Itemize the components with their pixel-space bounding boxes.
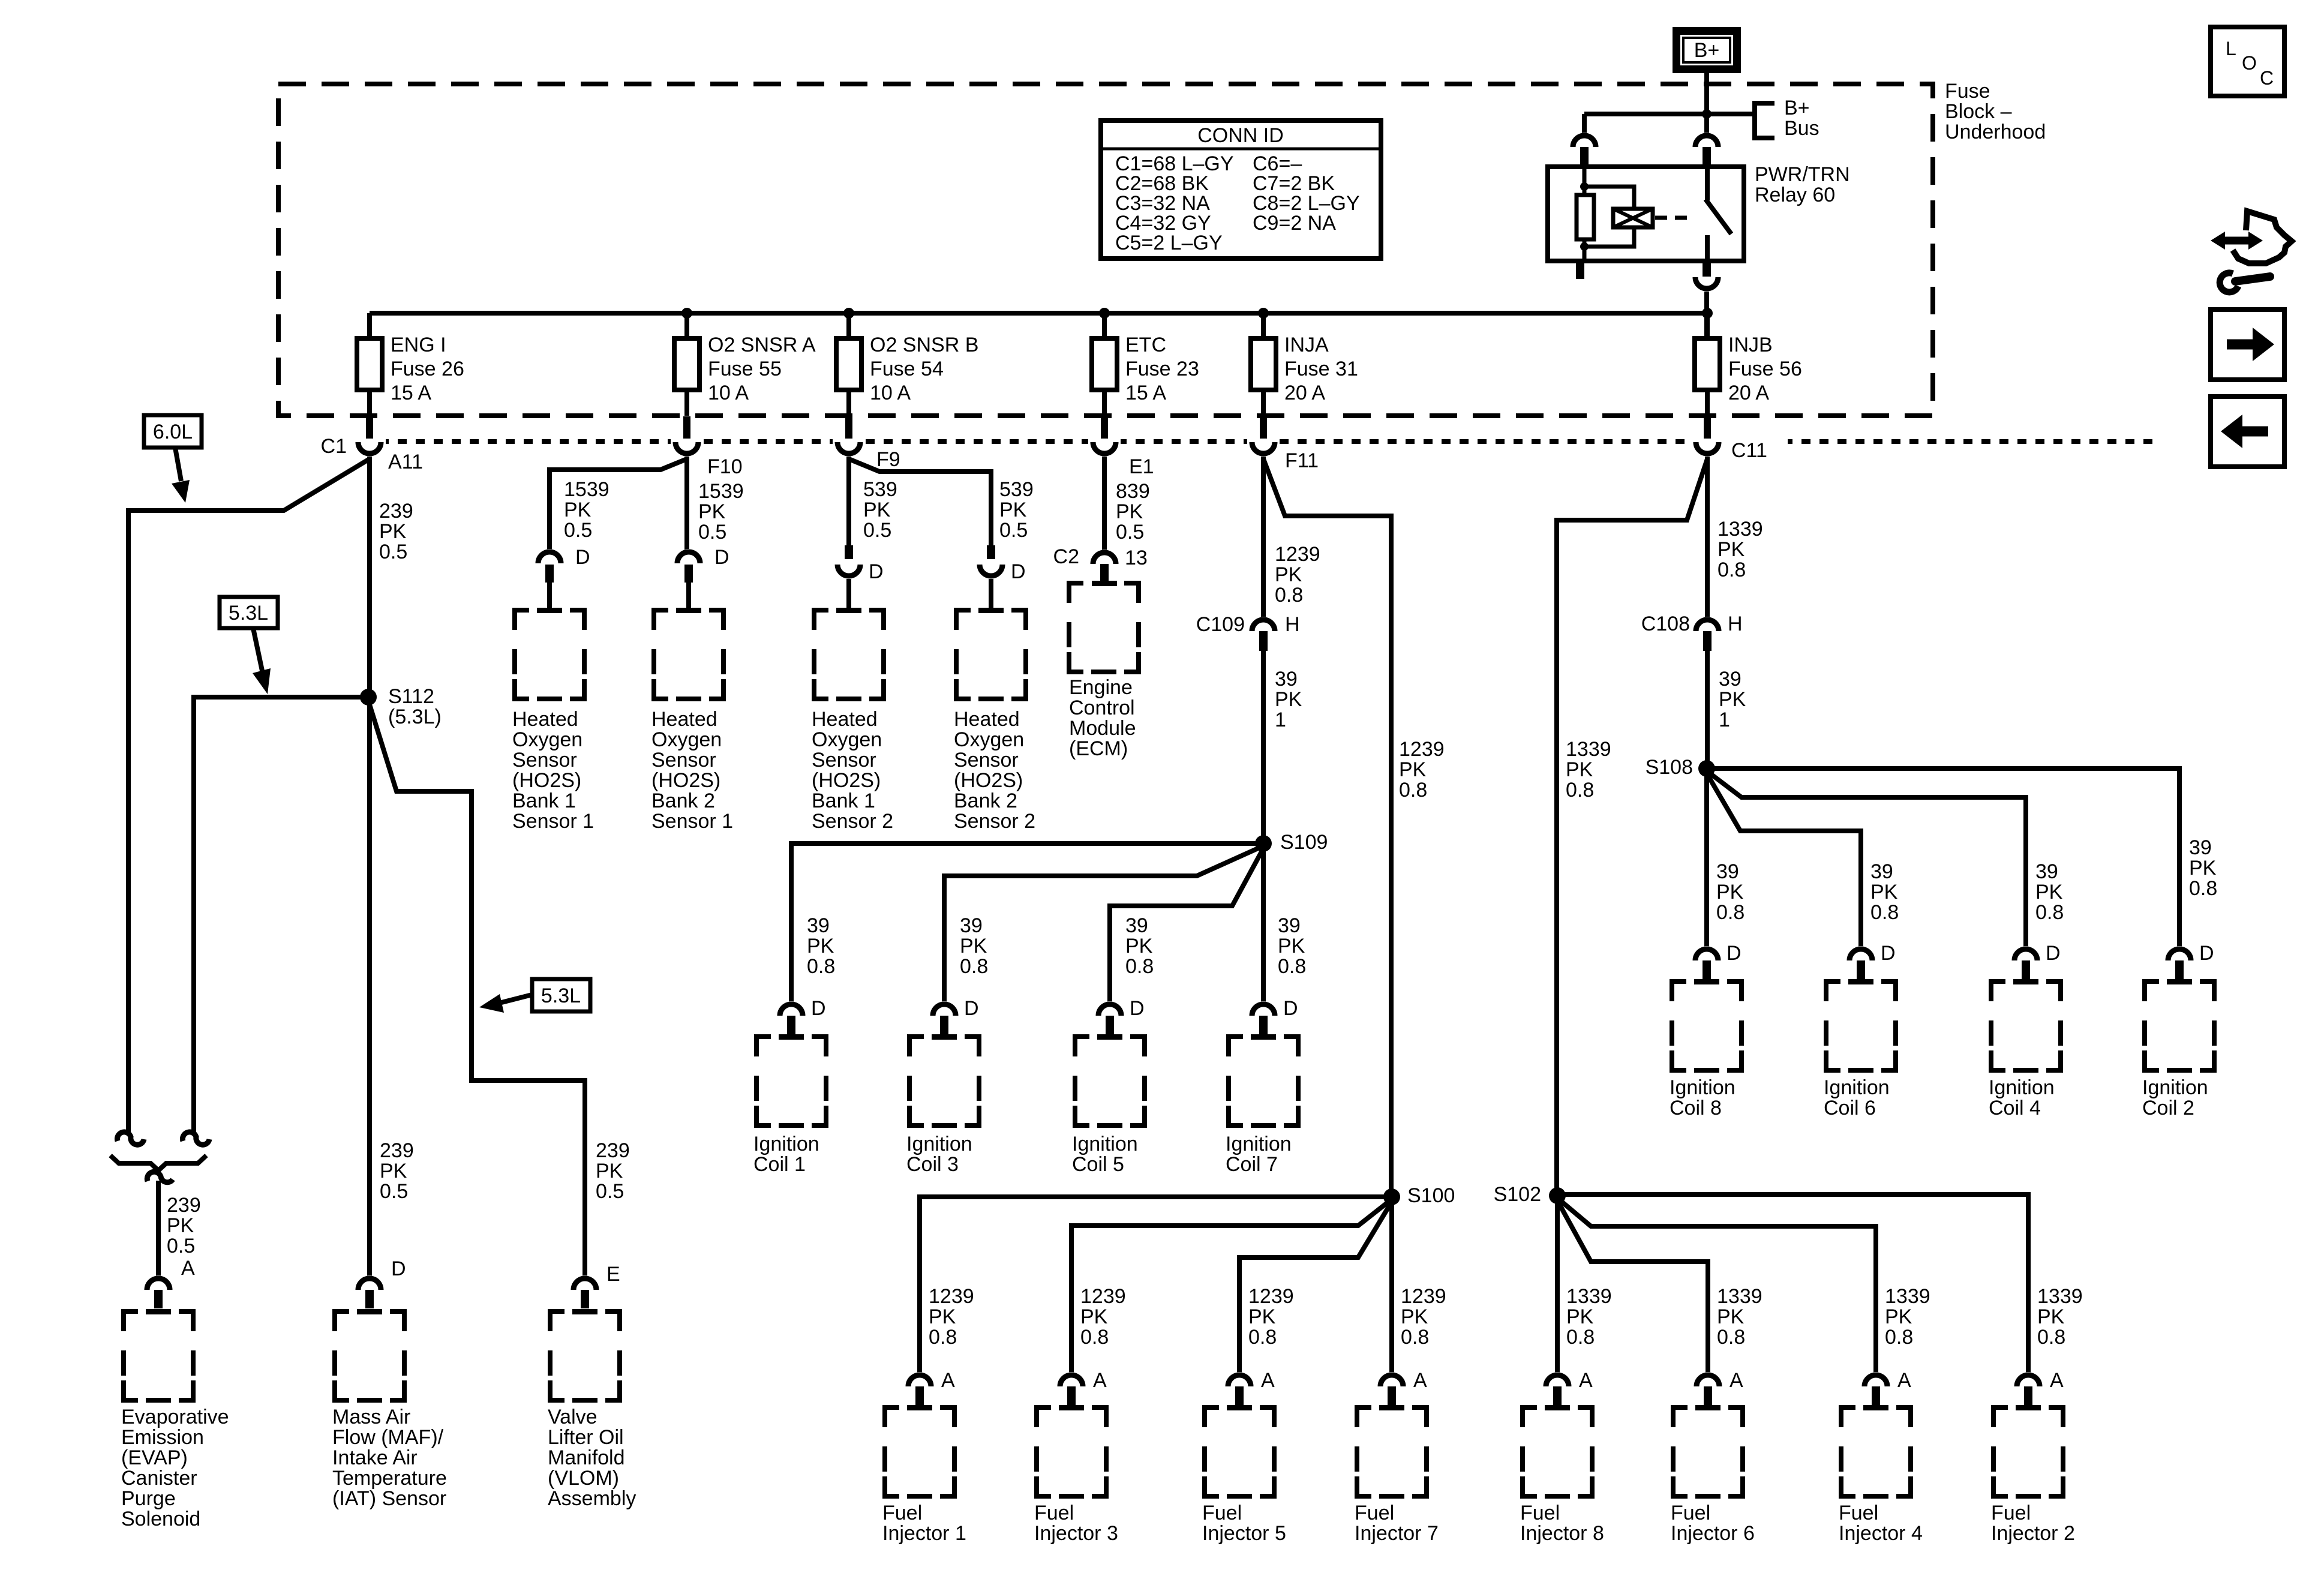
relay coil wire upper <box>1583 167 1587 195</box>
wire S109 to ignition coil 7 <box>1261 843 1266 1003</box>
connector ignition coil 6 pin D <box>1846 946 1875 960</box>
svg-text:Ignition: Ignition <box>1226 1133 1292 1155</box>
svg-text:1539: 1539 <box>564 478 609 501</box>
svg-text:Ignition: Ignition <box>2142 1076 2208 1099</box>
svg-text:239: 239 <box>167 1194 201 1217</box>
svg-text:Coil 3: Coil 3 <box>906 1153 959 1176</box>
wire bus to fuse 23 ETC <box>1102 313 1107 338</box>
svg-text:A: A <box>1897 1369 1911 1392</box>
5.3L arrow upper <box>253 628 262 671</box>
connector ignition coil 5 pin D <box>1095 1001 1124 1016</box>
HO2S bank1 sensor2 box <box>814 610 828 630</box>
svg-text:Bank 1: Bank 1 <box>512 789 576 812</box>
wire fuse supply bus <box>370 311 1707 316</box>
wire S102 to fuel injector 6 <box>1557 1200 1708 1374</box>
twisted pair hooks <box>117 1132 144 1145</box>
fuel injector 8 box <box>1523 1407 1537 1427</box>
svg-text:PK: PK <box>1718 538 1745 561</box>
svg-text:0.8: 0.8 <box>1885 1326 1913 1349</box>
svg-text:PK: PK <box>1566 758 1593 781</box>
svg-text:PK: PK <box>1566 1305 1594 1328</box>
svg-text:PK: PK <box>1116 500 1143 523</box>
wire relay output to INJB fuse <box>1704 292 1709 338</box>
svg-text:39: 39 <box>1278 914 1301 937</box>
svg-text:PK: PK <box>596 1160 623 1182</box>
svg-text:0.8: 0.8 <box>1248 1326 1277 1349</box>
wire B+ to bus junction <box>1704 73 1709 114</box>
connector E1 <box>1088 436 1121 447</box>
svg-text:H: H <box>1285 613 1300 636</box>
svg-text:Heated: Heated <box>651 708 717 731</box>
svg-text:D: D <box>1727 942 1742 965</box>
fuse 31 INJA <box>1251 338 1276 390</box>
svg-text:Oxygen: Oxygen <box>954 728 1024 751</box>
svg-text:839: 839 <box>1116 480 1150 503</box>
svg-text:PK: PK <box>1401 1305 1428 1328</box>
svg-text:D: D <box>391 1257 406 1280</box>
svg-text:Coil 6: Coil 6 <box>1824 1097 1876 1119</box>
ignition coil 6 box <box>1826 981 1840 1001</box>
svg-text:239: 239 <box>379 500 413 523</box>
svg-text:S100: S100 <box>1407 1184 1455 1207</box>
wire S102 to fuel injector 4 <box>1557 1198 1876 1374</box>
svg-text:Solenoid: Solenoid <box>121 1508 200 1530</box>
svg-text:A: A <box>1579 1369 1593 1392</box>
svg-text:Fuse 56: Fuse 56 <box>1728 358 1802 380</box>
connector fuel injector 2 pin A <box>2014 1372 2043 1386</box>
svg-text:Fuel: Fuel <box>882 1502 922 1524</box>
6.0L arrow <box>175 448 181 481</box>
svg-text:(HO2S): (HO2S) <box>512 769 581 792</box>
svg-text:F11: F11 <box>1285 449 1319 472</box>
wire S100 to fuel injector 7 <box>1389 1197 1394 1374</box>
svg-text:D: D <box>1011 560 1026 583</box>
splice S102 <box>1549 1187 1566 1204</box>
svg-text:CONN ID: CONN ID <box>1197 124 1284 147</box>
svg-text:PK: PK <box>1248 1305 1276 1328</box>
svg-text:Ignition: Ignition <box>1670 1076 1736 1099</box>
svg-text:Coil 2: Coil 2 <box>2142 1097 2194 1119</box>
svg-text:O: O <box>2242 52 2257 74</box>
wire S108 to ignition coil 4 <box>1707 771 2026 948</box>
svg-text:1239: 1239 <box>929 1285 974 1308</box>
svg-text:(ECM): (ECM) <box>1069 737 1128 760</box>
fuse 23 ETC <box>1092 338 1117 390</box>
ignition coil 3 box <box>909 1037 924 1056</box>
svg-text:0.5: 0.5 <box>698 521 726 544</box>
svg-text:Oxygen: Oxygen <box>651 728 722 751</box>
wire bus to fuse 56 INJB <box>1705 313 1710 338</box>
svg-text:Oxygen: Oxygen <box>812 728 882 751</box>
connector EVAP pin A <box>144 1275 173 1290</box>
svg-text:0.5: 0.5 <box>863 519 891 542</box>
svg-text:Injector 4: Injector 4 <box>1839 1522 1923 1545</box>
svg-text:PK: PK <box>564 499 591 521</box>
svg-text:PK: PK <box>999 499 1027 521</box>
PWR/TRN Relay 60 box <box>1548 167 1744 261</box>
svg-text:1339: 1339 <box>1566 1285 1612 1308</box>
splice S100 <box>1383 1188 1400 1205</box>
wire S100 to fuel injector 3 <box>1071 1199 1392 1374</box>
svg-text:39: 39 <box>1870 860 1893 883</box>
svg-text:10 A: 10 A <box>708 382 749 404</box>
wire S102 to fuel injector 2 <box>1557 1194 2028 1374</box>
svg-text:15 A: 15 A <box>1125 382 1166 404</box>
svg-text:Fuse 26: Fuse 26 <box>391 358 464 380</box>
svg-text:PK: PK <box>380 1160 407 1182</box>
relay switch upper contact <box>1705 167 1710 200</box>
svg-text:D: D <box>1283 997 1298 1020</box>
svg-text:20 A: 20 A <box>1284 382 1325 404</box>
svg-text:Ignition: Ignition <box>1072 1133 1138 1155</box>
relay output connector <box>1692 277 1721 292</box>
svg-text:Valve: Valve <box>548 1406 597 1428</box>
wire C109 to S109 <box>1261 651 1266 843</box>
ignition coil 5 box <box>1075 1037 1089 1056</box>
svg-text:O2 SNSR B: O2 SNSR B <box>870 334 978 356</box>
relay switch lower contact <box>1705 235 1710 261</box>
svg-text:B+: B+ <box>1784 97 1810 119</box>
svg-text:Block –: Block – <box>1945 100 2012 123</box>
wire S108 to ignition coil 2 <box>1707 769 2179 948</box>
svg-text:Module: Module <box>1069 717 1136 740</box>
svg-text:Injector 8: Injector 8 <box>1520 1522 1604 1545</box>
ignition coil 8 box <box>1672 981 1686 1001</box>
svg-text:Fuse 54: Fuse 54 <box>870 358 944 380</box>
B+ power symbol <box>1673 27 1741 73</box>
connector fuel injector 4 pin A <box>1861 1372 1890 1386</box>
bus junction <box>843 308 854 319</box>
connector VLOM pin E <box>571 1275 599 1290</box>
svg-text:Heated: Heated <box>954 708 1020 731</box>
dotted connector line <box>326 439 2154 444</box>
wire to relay coil pin <box>1582 114 1587 136</box>
svg-text:Flow (MAF)/: Flow (MAF)/ <box>332 1426 444 1449</box>
svg-text:1539: 1539 <box>698 480 744 503</box>
svg-text:0.8: 0.8 <box>1278 955 1306 978</box>
svg-text:0.5: 0.5 <box>380 1180 408 1203</box>
svg-text:A: A <box>2050 1369 2064 1392</box>
B+ Bus bracket <box>1755 103 1774 138</box>
relay resistor <box>1577 195 1594 239</box>
svg-text:39: 39 <box>2035 860 2058 883</box>
svg-text:Fuel: Fuel <box>1355 1502 1394 1524</box>
svg-text:0.8: 0.8 <box>1870 901 1899 924</box>
wire E1 to ECM <box>1102 457 1107 550</box>
svg-text:Bank 2: Bank 2 <box>651 789 715 812</box>
fuse 54 O2 SNSR B <box>836 338 861 390</box>
wire S100 to fuel injector 5 <box>1239 1202 1392 1374</box>
svg-text:Fuel: Fuel <box>1839 1502 1878 1524</box>
svg-text:0.5: 0.5 <box>564 519 592 542</box>
svg-text:PK: PK <box>698 500 726 523</box>
fuel injector 2 box <box>1993 1407 2008 1427</box>
svg-text:A: A <box>941 1369 955 1392</box>
svg-text:Sensor 2: Sensor 2 <box>954 810 1035 833</box>
HO2S bank2 sensor1 box <box>654 610 668 630</box>
svg-text:PWR/TRN: PWR/TRN <box>1755 163 1850 186</box>
svg-text:C2: C2 <box>1053 545 1079 568</box>
wire S109 to ignition coil 1 <box>791 843 1263 1003</box>
wire S108 to ignition coil 6 <box>1707 773 1861 948</box>
svg-text:F10: F10 <box>707 455 743 478</box>
svg-text:Relay 60: Relay 60 <box>1755 184 1835 206</box>
svg-text:Fuel: Fuel <box>1991 1502 2031 1524</box>
svg-text:0.8: 0.8 <box>1399 779 1427 801</box>
svg-text:PK: PK <box>1275 688 1302 711</box>
next page icon box <box>2211 310 2284 380</box>
svg-text:C5=2 L–GY: C5=2 L–GY <box>1115 232 1223 254</box>
svg-text:39: 39 <box>1719 668 1742 691</box>
connector HO2S bank1 sensor2 pin D <box>845 545 853 559</box>
svg-text:1239: 1239 <box>1275 543 1320 566</box>
svg-text:A: A <box>181 1257 195 1280</box>
svg-text:PK: PK <box>2037 1305 2065 1328</box>
svg-text:Intake Air: Intake Air <box>332 1446 418 1469</box>
svg-text:D: D <box>575 546 590 569</box>
connector HO2S bank2 sensor2 pin D <box>987 545 995 559</box>
svg-text:Temperature: Temperature <box>332 1467 447 1490</box>
wire C11 to C108 <box>1705 457 1710 617</box>
relay coil ground stub <box>1576 261 1584 279</box>
svg-text:Bank 2: Bank 2 <box>954 789 1017 812</box>
connector ignition coil 2 pin D <box>2165 946 2194 960</box>
svg-text:S109: S109 <box>1280 831 1328 854</box>
svg-text:39: 39 <box>960 914 983 937</box>
svg-text:1339: 1339 <box>1566 738 1611 761</box>
fuse 55 O2 SNSR A <box>674 338 699 390</box>
svg-text:39: 39 <box>807 914 830 937</box>
CONN ID table box <box>1101 121 1381 259</box>
svg-text:C11: C11 <box>1731 439 1767 462</box>
wire S112 to EVAP branch (5.3L) <box>194 697 368 1134</box>
relay junction lower <box>1580 242 1589 251</box>
wire C11 to S102 <box>1557 459 1707 1196</box>
svg-text:39: 39 <box>1275 668 1298 691</box>
svg-text:Sensor: Sensor <box>954 749 1019 772</box>
svg-text:13: 13 <box>1125 547 1148 569</box>
svg-text:D: D <box>1130 997 1145 1020</box>
svg-text:0.8: 0.8 <box>1275 584 1303 607</box>
wire fuse 31 INJA to connector <box>1261 390 1266 416</box>
svg-text:0.5: 0.5 <box>167 1235 195 1257</box>
svg-text:S108: S108 <box>1646 756 1693 779</box>
svg-text:(HO2S): (HO2S) <box>812 769 881 792</box>
relay switch blade <box>1706 199 1731 234</box>
svg-text:Fuel: Fuel <box>1671 1502 1710 1524</box>
svg-text:PK: PK <box>807 935 834 957</box>
wire bus to fuse 54 O2 SNSR B <box>846 313 851 338</box>
svg-text:Sensor: Sensor <box>812 749 876 772</box>
svg-text:L: L <box>2226 38 2236 59</box>
HO2S bank2 sensor2 box <box>956 610 971 630</box>
svg-text:Engine: Engine <box>1069 676 1133 699</box>
svg-text:5.3L: 5.3L <box>229 602 268 625</box>
svg-text:0.8: 0.8 <box>2037 1326 2065 1349</box>
svg-text:C9=2 NA: C9=2 NA <box>1253 212 1336 235</box>
wire S109 to ignition coil 5 <box>1110 848 1263 1003</box>
svg-text:Coil 1: Coil 1 <box>753 1153 806 1176</box>
svg-text:D: D <box>869 560 884 583</box>
svg-text:Heated: Heated <box>812 708 878 731</box>
svg-text:0.8: 0.8 <box>1718 559 1746 581</box>
svg-text:Bank 1: Bank 1 <box>812 789 875 812</box>
svg-text:S102: S102 <box>1494 1183 1541 1206</box>
svg-text:E1: E1 <box>1129 455 1154 478</box>
svg-text:(IAT) Sensor: (IAT) Sensor <box>332 1487 446 1510</box>
connector ignition coil 7 pin D <box>1249 1001 1278 1016</box>
connector ignition coil 4 pin D <box>2011 946 2040 960</box>
connector F10 <box>671 436 703 447</box>
svg-text:Lifter Oil: Lifter Oil <box>548 1426 624 1449</box>
svg-text:239: 239 <box>596 1139 630 1162</box>
bus junction <box>1702 308 1713 319</box>
svg-text:H: H <box>1728 613 1743 635</box>
svg-text:0.8: 0.8 <box>1125 955 1154 978</box>
fuel injector 5 box <box>1205 1407 1219 1427</box>
svg-text:Fuel: Fuel <box>1520 1502 1560 1524</box>
wire F9 to HO2S bank2 sensor2 <box>849 459 991 545</box>
svg-text:INJA: INJA <box>1284 334 1329 356</box>
connector fuel injector 5 pin A <box>1225 1372 1254 1386</box>
svg-text:Fuse 55: Fuse 55 <box>708 358 782 380</box>
svg-text:Mass Air: Mass Air <box>332 1406 410 1428</box>
svg-text:Injector 2: Injector 2 <box>1991 1522 2075 1545</box>
svg-text:Bus: Bus <box>1784 117 1819 140</box>
svg-text:Ignition: Ignition <box>1989 1076 2055 1099</box>
wire fuse 26 ENG I to connector <box>367 390 372 416</box>
connector C11 <box>1691 436 1724 447</box>
wire twisted pair to EVAP solenoid <box>156 1181 161 1276</box>
connector HO2S bank2 sensor1 pin D <box>674 549 703 563</box>
svg-text:239: 239 <box>380 1139 414 1162</box>
connector fuel injector 1 pin A <box>905 1372 934 1386</box>
svg-text:Injector 3: Injector 3 <box>1034 1522 1118 1545</box>
svg-text:1239: 1239 <box>1248 1285 1294 1308</box>
svg-text:Fuel: Fuel <box>1034 1502 1074 1524</box>
svg-text:PK: PK <box>1278 935 1305 957</box>
svg-text:(HO2S): (HO2S) <box>651 769 720 792</box>
twisted pair brace <box>110 1155 206 1170</box>
svg-text:PK: PK <box>1719 688 1746 711</box>
fuse block underhood dashed outline <box>278 84 1933 416</box>
svg-text:539: 539 <box>863 478 897 501</box>
wire bus to fuse 55 O2 SNSR A <box>684 313 689 338</box>
svg-text:PK: PK <box>929 1305 956 1328</box>
fuse 26 ENG I <box>357 338 382 390</box>
svg-text:0.8: 0.8 <box>1566 779 1594 801</box>
svg-text:Sensor: Sensor <box>651 749 716 772</box>
connector fuel injector 6 pin A <box>1694 1372 1722 1386</box>
svg-text:C: C <box>2260 67 2274 89</box>
svg-text:A: A <box>1413 1369 1427 1392</box>
LOC icon box <box>2211 27 2284 96</box>
svg-text:B+: B+ <box>1694 39 1720 62</box>
svg-text:D: D <box>2046 942 2061 965</box>
ignition coil 1 box <box>756 1037 771 1056</box>
wire fuse 54 O2 SNSR B to connector <box>846 390 851 416</box>
svg-text:C109: C109 <box>1196 613 1245 636</box>
wire F10 to HO2S bank2 sensor1 <box>684 457 689 550</box>
HO2S bank1 sensor1 box <box>515 610 529 630</box>
svg-text:PK: PK <box>1870 881 1898 903</box>
svg-text:Heated: Heated <box>512 708 578 731</box>
svg-text:D: D <box>2199 942 2214 965</box>
connector ignition coil 8 pin D <box>1692 946 1721 960</box>
svg-text:0.5: 0.5 <box>999 519 1028 542</box>
splice S108 <box>1698 760 1715 777</box>
relay switch pin connector <box>1692 133 1721 147</box>
connector ignition coil 1 pin D <box>777 1001 806 1016</box>
svg-text:0.8: 0.8 <box>2035 901 2064 924</box>
wire C1 to EVAP branch (6.0L) <box>128 459 370 1134</box>
svg-text:0.8: 0.8 <box>2189 877 2217 900</box>
CONN ID header rule <box>1101 148 1381 151</box>
svg-text:1339: 1339 <box>1718 518 1763 541</box>
connector HO2S bank1 sensor1 pin D <box>535 549 564 563</box>
6.0L flag box <box>144 415 202 448</box>
svg-text:Oxygen: Oxygen <box>512 728 582 751</box>
wire fuse 56 INJB to connector <box>1705 390 1710 416</box>
svg-text:PK: PK <box>1125 935 1153 957</box>
relay output stub <box>1703 261 1711 277</box>
svg-text:O2 SNSR A: O2 SNSR A <box>708 334 816 356</box>
bus junction <box>1099 308 1110 319</box>
svg-text:10 A: 10 A <box>870 382 911 404</box>
svg-text:Sensor 2: Sensor 2 <box>812 810 893 833</box>
svg-text:A: A <box>1730 1369 1743 1392</box>
svg-text:0.8: 0.8 <box>1566 1326 1595 1349</box>
svg-text:Manifold: Manifold <box>548 1446 625 1469</box>
svg-text:Injector 5: Injector 5 <box>1202 1522 1286 1545</box>
connector C108 <box>1693 617 1722 631</box>
ignition coil 7 box <box>1229 1037 1243 1056</box>
svg-text:Ignition: Ignition <box>753 1133 819 1155</box>
svg-text:Injector 7: Injector 7 <box>1355 1522 1439 1545</box>
relay coil wire lower <box>1583 239 1587 261</box>
fuse 56 INJB <box>1695 338 1720 390</box>
ECM box <box>1069 583 1083 603</box>
svg-text:(5.3L): (5.3L) <box>388 706 442 728</box>
connector C1 <box>353 436 386 447</box>
fuel injector 1 box <box>885 1407 899 1427</box>
svg-text:D: D <box>811 997 826 1020</box>
splice S112 <box>360 689 377 706</box>
svg-text:PK: PK <box>1885 1305 1912 1328</box>
ignition coil 2 box <box>2145 981 2159 1001</box>
EVAP canister purge solenoid box <box>124 1311 138 1331</box>
svg-text:0.8: 0.8 <box>1717 1326 1745 1349</box>
wire F11 to S100 <box>1263 459 1391 1197</box>
svg-text:Purge: Purge <box>121 1487 176 1510</box>
wire resistor to coil bottom <box>1584 227 1634 247</box>
svg-text:0.8: 0.8 <box>1401 1326 1429 1349</box>
VLOM assembly box <box>550 1311 565 1331</box>
svg-text:Fuse 31: Fuse 31 <box>1284 358 1358 380</box>
svg-text:Evaporative: Evaporative <box>121 1406 229 1428</box>
svg-text:PK: PK <box>863 499 891 521</box>
svg-text:Coil 7: Coil 7 <box>1226 1153 1278 1176</box>
svg-text:1339: 1339 <box>1717 1285 1762 1308</box>
ignition coil 4 box <box>1991 981 2005 1001</box>
svg-text:E: E <box>606 1263 620 1286</box>
svg-text:(VLOM): (VLOM) <box>548 1467 619 1490</box>
svg-text:INJB: INJB <box>1728 334 1773 356</box>
wire fuse 55 O2 SNSR A to connector <box>684 390 689 416</box>
svg-text:D: D <box>1881 942 1896 965</box>
wire to relay switch pin <box>1704 114 1709 136</box>
svg-text:ENG I: ENG I <box>391 334 446 356</box>
